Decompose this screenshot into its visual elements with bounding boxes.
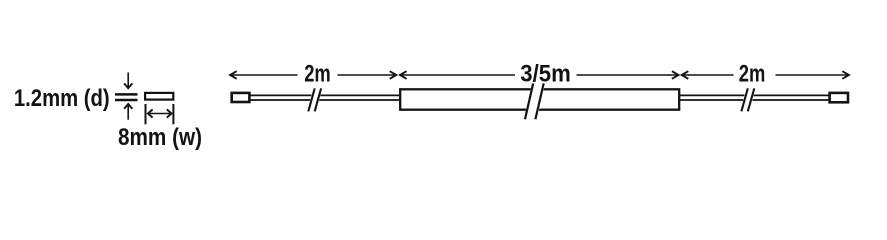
dimension 2m right: arrows and shafts [682, 71, 849, 79]
svg-text:2m: 2m [304, 61, 331, 88]
dimension 3/5m: arrows and shafts [400, 71, 679, 79]
strip cross-section rectangle [145, 93, 173, 100]
width extension tick left [145, 104, 147, 124]
strip break: gap [524, 83, 546, 121]
connector right [830, 93, 848, 102]
wire break right: gap [740, 88, 756, 113]
wire break left: slashes [308, 88, 321, 111]
thickness gauge bottom line [115, 99, 138, 102]
thickness gauge top line [115, 93, 138, 96]
svg-text:2m: 2m [739, 61, 766, 88]
svg-text:8mm (w): 8mm (w) [118, 124, 202, 151]
strip break: slashes [525, 83, 544, 119]
svg-text:1.2mm (d): 1.2mm (d) [14, 85, 110, 112]
width double arrow [148, 109, 172, 117]
wire break right: slashes [741, 88, 754, 111]
svg-text:3/5m: 3/5m [520, 61, 571, 88]
width extension tick right [172, 104, 174, 124]
wire left segment (double line) [250, 95, 399, 100]
LED strip body [400, 89, 679, 109]
wire break left: gap [307, 88, 323, 113]
thickness up arrow [124, 104, 132, 120]
dimension 2m left: arrows and shafts [230, 71, 396, 79]
wire right segment (double line) [680, 95, 831, 100]
thickness down arrow [124, 73, 132, 89]
connector left [232, 93, 250, 102]
